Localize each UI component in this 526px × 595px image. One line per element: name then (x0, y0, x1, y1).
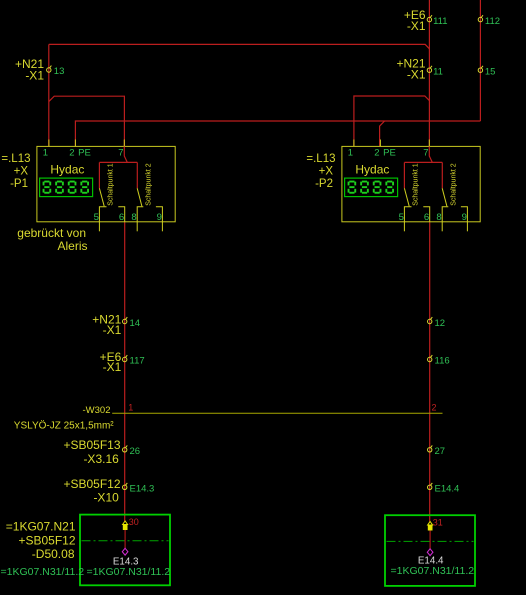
svg-text:27: 27 (435, 446, 446, 457)
P2 display frame (345, 178, 398, 197)
svg-text:5: 5 (94, 212, 99, 223)
svg-text:6: 6 (424, 212, 429, 223)
PLC tag =1KG07.N21 +SB05F12 -D50.08 (6, 520, 76, 562)
svg-text:+SB05F13: +SB05F13 (63, 438, 120, 452)
svg-text:6: 6 (119, 212, 124, 223)
svg-text:E14.4: E14.4 (435, 484, 460, 495)
terminal X1:13 (47, 66, 52, 73)
svg-text:+X: +X (14, 166, 29, 178)
svg-text:+SB05F12: +SB05F12 (63, 477, 120, 491)
svg-text:Hydac: Hydac (355, 163, 389, 177)
svg-text:8: 8 (131, 212, 136, 223)
label terminal +SB05F12 -X10 (63, 477, 120, 505)
green function box left (80, 515, 170, 586)
svg-text:1: 1 (128, 403, 133, 413)
connection point symbol 30 (yellow arrow) (123, 521, 128, 525)
svg-text:E14.3: E14.3 (130, 484, 155, 495)
svg-text:-X10: -X10 (93, 491, 119, 505)
svg-text:PE: PE (78, 147, 91, 158)
P1 internal wiring from pin 7 (99, 146, 137, 188)
terminal X10:E14.3 (123, 483, 128, 490)
svg-text:Schaltpunkt 1: Schaltpunkt 1 (107, 163, 114, 206)
P1 switch contact Schaltpunkt 1 (99, 188, 124, 222)
note gebrückt von Aleris (17, 226, 87, 253)
sensor point diamond E14.4 (427, 549, 433, 556)
svg-text:=.L13: =.L13 (1, 153, 30, 165)
wire vertical X1:111/11 column to -P2 pin 7 (428, 0, 430, 146)
svg-text:9: 9 (462, 212, 467, 223)
terminal X3.16:27 (428, 445, 433, 452)
P2 pin numbers top (348, 147, 429, 158)
green function box right (385, 515, 475, 586)
wire vertical X1:112/15 column (479, 0, 481, 121)
P1 display digits (43, 181, 394, 194)
device tag =.L13 +X -P2 (306, 153, 335, 190)
green function box left dash-dot line (82, 540, 169, 542)
wire below symbol 30 (124, 530, 126, 548)
wire kink to -P2 pin 2 (380, 121, 385, 146)
P1 pin numbers top (43, 147, 124, 158)
svg-text:-X1: -X1 (103, 323, 122, 337)
svg-text:7: 7 (118, 147, 123, 158)
P2 pin stubs bottom (404, 222, 467, 232)
terminal X1:12 (428, 317, 433, 324)
wire horizontal to -P2 pin 1 with kink (354, 96, 430, 146)
label terminal +N21 -X1 (mid left) (92, 312, 121, 337)
P1 display frame (40, 178, 93, 197)
svg-text:PE: PE (383, 147, 396, 158)
wire top rail from X1:13 to X1:11 column (49, 44, 430, 48)
P1 switch contact Schaltpunkt 2 (137, 188, 162, 222)
svg-text:=1KG07.N31/11.2: =1KG07.N31/11.2 (391, 565, 475, 577)
wire branch kink to -P1 pin 7 (49, 96, 125, 146)
label terminal strip +N21 -X1 (top left) (15, 57, 44, 82)
svg-text:-D50.08: -D50.08 (32, 547, 75, 561)
P1 pin stubs bottom (99, 222, 162, 232)
device tag =.L13 +X -P1 (1, 153, 30, 190)
label terminal strip +E6 -X1 (top right) (404, 8, 426, 33)
svg-text:2: 2 (69, 147, 74, 158)
cable -W302 line (112, 412, 442, 414)
svg-text:-W302: -W302 (83, 405, 111, 416)
svg-text:YSLYÖ-JZ 25x1,5mm²: YSLYÖ-JZ 25x1,5mm² (14, 419, 115, 431)
svg-text:-P2: -P2 (315, 178, 333, 190)
wire vertical X1:13 down to -P1 pin 1 (48, 44, 50, 146)
svg-text:-X1: -X1 (407, 19, 426, 33)
svg-text:-X1: -X1 (407, 68, 426, 82)
svg-text:8: 8 (436, 212, 441, 223)
svg-text:=.L13: =.L13 (306, 153, 335, 165)
terminal X1:11 (427, 66, 432, 73)
P2 switch contact Schaltpunkt 1 (404, 188, 429, 222)
svg-text:13: 13 (54, 66, 65, 77)
svg-text:2: 2 (374, 147, 379, 158)
terminal X10:E14.4 (428, 483, 433, 490)
svg-text:7: 7 (423, 147, 428, 158)
device P1 box (37, 146, 175, 221)
terminal X1:112 (478, 15, 483, 22)
device P2 box (342, 146, 480, 221)
P1 pin stubs top (49, 140, 124, 147)
svg-text:15: 15 (485, 66, 496, 77)
svg-text:116: 116 (435, 356, 450, 367)
svg-text:111: 111 (433, 16, 447, 27)
P2 pin numbers bottom (399, 212, 467, 223)
terminal X1:15 (478, 66, 483, 73)
svg-text:2: 2 (432, 402, 437, 412)
terminal X1:14 (123, 317, 128, 324)
svg-text:Aleris: Aleris (57, 239, 87, 253)
wire left lower vertical from -P1 pin6 to green box (124, 222, 126, 521)
svg-text:+SB05F12: +SB05F12 (18, 534, 75, 548)
label terminal strip +N21 -X1 (right) (396, 57, 425, 82)
svg-text:-X1: -X1 (25, 69, 44, 83)
svg-text:30: 30 (129, 517, 139, 527)
label terminal +SB05F13 -X3.16 (63, 438, 120, 466)
svg-text:Schaltpunkt 1: Schaltpunkt 1 (412, 163, 419, 206)
wire horizontal pin2 rail y=121 (75, 121, 480, 146)
green function box right dash-dot line (387, 540, 474, 542)
label terminal +E6 -X1 (mid left) (100, 350, 122, 374)
svg-text:gebrückt von: gebrückt von (17, 226, 86, 240)
terminal X3.16:26 (123, 445, 128, 452)
terminal X1:111 (427, 15, 432, 22)
svg-text:12: 12 (435, 318, 446, 329)
svg-text:1: 1 (348, 147, 353, 158)
P1 pin numbers bottom (94, 212, 162, 223)
svg-text:112: 112 (485, 16, 500, 27)
svg-text:14: 14 (130, 318, 141, 329)
terminal X1:116 (428, 355, 433, 362)
svg-text:+X: +X (319, 166, 334, 178)
P2 switch contact Schaltpunkt 2 (442, 188, 467, 222)
connection point symbol 31 (yellow arrow) (428, 522, 433, 526)
svg-text:117: 117 (130, 356, 145, 367)
svg-text:=1KG07.N21: =1KG07.N21 (6, 520, 76, 534)
svg-text:31: 31 (433, 517, 443, 527)
terminal X1:117 (123, 355, 128, 362)
svg-text:-X1: -X1 (103, 360, 122, 374)
svg-text:Schaltpunkt 2: Schaltpunkt 2 (450, 163, 457, 206)
P2 internal wiring from pin 7 (404, 146, 442, 188)
svg-text:-X3.16: -X3.16 (83, 452, 119, 466)
svg-text:Schaltpunkt 2: Schaltpunkt 2 (145, 163, 152, 206)
wire below symbol 31 (429, 531, 431, 549)
P2 pin stubs top (354, 140, 429, 147)
sensor point diamond E14.3 (122, 548, 128, 555)
svg-text:=1KG07.N31/11.2: =1KG07.N31/11.2 (1, 566, 85, 578)
svg-text:26: 26 (130, 446, 141, 457)
wire right lower vertical from -P2 pin6 to green box (429, 222, 431, 522)
svg-text:5: 5 (399, 212, 404, 223)
svg-text:-P1: -P1 (10, 178, 28, 190)
svg-text:9: 9 (157, 212, 162, 223)
svg-text:1: 1 (43, 147, 48, 158)
svg-text:11: 11 (433, 66, 443, 77)
svg-text:=1KG07.N31/11.2: =1KG07.N31/11.2 (87, 566, 171, 578)
svg-text:Hydac: Hydac (50, 163, 84, 177)
